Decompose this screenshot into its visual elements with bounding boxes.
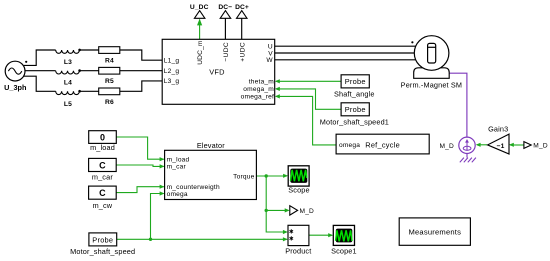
resistor R5 xyxy=(99,67,120,85)
subsystem Measurements xyxy=(399,218,470,245)
VFD block xyxy=(162,39,275,104)
svg-text:0: 0 xyxy=(100,133,105,143)
svg-text:U_DC: U_DC xyxy=(190,4,209,11)
constant block C (m_cw) xyxy=(89,186,117,210)
svg-text:Scope1: Scope1 xyxy=(331,246,357,255)
electrical tag DC- xyxy=(218,4,232,18)
wire phase row3 L5 to VFD L3_g xyxy=(79,81,162,91)
arrow into Scope1 xyxy=(328,233,333,237)
constant block C (m_car) xyxy=(89,158,117,181)
arrow into Product input 1 xyxy=(283,230,288,234)
wire junction to Elevator omega input xyxy=(151,194,164,240)
svg-text:m_car: m_car xyxy=(92,173,113,182)
wire m_cw const to Elevator xyxy=(116,187,164,193)
motor Perm.-Magnet SM xyxy=(401,36,462,90)
arrow into Gain3 xyxy=(509,143,514,147)
wire torque branch to M_D output tag xyxy=(266,209,288,211)
arrow into Elevator m_car xyxy=(160,164,165,168)
arrow into Elevator m_counterweigth xyxy=(160,185,165,189)
wire Product output to Scope1 xyxy=(309,234,332,236)
probe Shaft_angle xyxy=(334,75,375,99)
svg-text:omega_ref: omega_ref xyxy=(241,94,274,101)
svg-text:theta_m: theta_m xyxy=(249,79,275,86)
svg-text:Perm.-Magnet SM: Perm.-Magnet SM xyxy=(401,80,462,89)
scope Scope1 xyxy=(331,225,357,255)
wire Ref_cycle omega to VFD omega_ref xyxy=(276,96,336,144)
signal tag M_D output xyxy=(290,206,314,215)
arrow into Product input 2 xyxy=(283,237,288,241)
arrow into VFD omega_ref xyxy=(275,94,280,98)
svg-text:L3: L3 xyxy=(64,59,72,66)
svg-text:Elevator: Elevator xyxy=(197,141,225,150)
product block xyxy=(285,225,311,255)
gain Gain3 xyxy=(488,124,509,154)
arrow into VFD theta_m xyxy=(275,79,280,83)
svg-text:DC−: DC− xyxy=(218,4,232,11)
svg-text:U_3ph: U_3ph xyxy=(4,83,26,92)
arrow into Elevator m_load xyxy=(160,157,165,161)
svg-text:Measurements: Measurements xyxy=(408,227,461,236)
svg-text:m_load: m_load xyxy=(90,143,115,152)
inductor L3 xyxy=(56,49,81,66)
junction probe speed / omega branch xyxy=(149,238,152,241)
arrow into Scope xyxy=(283,174,288,178)
svg-text:m_car: m_car xyxy=(167,164,187,171)
svg-text:Gain3: Gain3 xyxy=(488,124,508,133)
ac source U_3ph xyxy=(4,61,27,92)
svg-text:Motor_shaft_speed: Motor_shaft_speed xyxy=(70,247,135,256)
svg-text:L4: L4 xyxy=(64,80,72,87)
svg-text:−1: −1 xyxy=(497,143,505,150)
svg-text:L2_g: L2_g xyxy=(164,68,180,75)
wire Gain3 to torque source xyxy=(477,144,487,146)
svg-text:Motor_shaft_speed1: Motor_shaft_speed1 xyxy=(320,118,389,127)
scope Scope xyxy=(288,166,310,195)
svg-text:−UDC: −UDC xyxy=(223,42,230,62)
svg-text:m_load: m_load xyxy=(167,157,190,164)
inductor L4 xyxy=(56,69,81,86)
wire DC+ tag to VFD xyxy=(241,18,243,39)
svg-text:M_D: M_D xyxy=(300,208,315,215)
resistor R6 xyxy=(99,88,120,106)
probe Motor_shaft_speed1 xyxy=(320,103,389,127)
arrow into torque source M_D xyxy=(476,143,481,147)
svg-text:Ref_cycle: Ref_cycle xyxy=(365,141,400,150)
svg-text:L3_g: L3_g xyxy=(164,78,180,85)
svg-text:Scope: Scope xyxy=(288,186,309,195)
svg-text:Product: Product xyxy=(285,247,311,256)
svg-text:M_D: M_D xyxy=(533,143,548,150)
svg-text:Shaft_angle: Shaft_angle xyxy=(334,90,375,99)
electrical tag DC+ xyxy=(235,4,249,18)
subsystem Ref_cycle xyxy=(336,134,429,154)
svg-text:Probe: Probe xyxy=(345,77,366,86)
svg-text:L5: L5 xyxy=(64,101,72,108)
svg-text:VFD: VFD xyxy=(209,67,225,76)
wire Probe Shaft_angle to VFD theta_m xyxy=(276,80,341,82)
arrow into M_D output tag xyxy=(285,208,290,212)
ground (rotational reference) xyxy=(460,154,476,163)
wire DC- tag to VFD xyxy=(224,18,226,39)
torque source M_D xyxy=(439,137,475,153)
svg-text:omega_m: omega_m xyxy=(243,86,274,93)
svg-text:L1_g: L1_g xyxy=(164,57,180,64)
svg-text:Probe: Probe xyxy=(92,235,113,244)
arrow into VFD omega_m xyxy=(275,87,280,91)
wire m_car const to Elevator xyxy=(116,165,164,166)
inductor L5 xyxy=(56,90,81,108)
wire Probe Motor_shaft_speed1 to VFD omega_m xyxy=(276,89,341,109)
subsystem Elevator xyxy=(165,141,257,200)
svg-text:+UDC: +UDC xyxy=(239,42,246,62)
wire phase row1 L3 to VFD L1_g xyxy=(79,50,162,60)
svg-text:R4: R4 xyxy=(105,58,114,65)
junction torque-M_D branch xyxy=(265,209,268,212)
constant block 0 (m_load) xyxy=(89,131,117,152)
svg-text:C: C xyxy=(99,160,106,170)
wire phase row2 L4 to VFD L2_g xyxy=(79,70,162,72)
wire VFD W to motor xyxy=(275,59,416,61)
wire VFD U to motor xyxy=(275,45,416,47)
wire UDC_m to U_DC tag xyxy=(199,20,201,40)
svg-text:DC+: DC+ xyxy=(235,4,249,11)
wire torque branch down to M_D tag and Product xyxy=(266,176,287,232)
svg-text:omega: omega xyxy=(339,142,360,149)
electrical tag U_DC xyxy=(190,4,209,18)
svg-text:W: W xyxy=(266,57,273,64)
wire Elevator Torque output to Scope xyxy=(256,175,287,177)
svg-text:m_cw: m_cw xyxy=(93,201,113,210)
arrow into Elevator omega xyxy=(160,191,165,195)
signal tag M_D input xyxy=(524,142,548,150)
svg-text:Probe: Probe xyxy=(345,105,366,114)
junction torque-scope branch xyxy=(265,174,268,177)
wire phase row3 source to L5 xyxy=(24,76,56,91)
arrow into U_DC tag (up) xyxy=(197,19,202,26)
svg-text:R6: R6 xyxy=(105,99,114,106)
svg-text:C: C xyxy=(99,188,106,198)
wire motor shaft to torque source M_D xyxy=(449,73,467,137)
wire phase row1 source to L3 xyxy=(24,50,56,65)
resistor R4 xyxy=(99,47,120,65)
svg-text:omega: omega xyxy=(167,191,188,198)
probe Motor_shaft_speed xyxy=(70,233,135,256)
wire phase row2 source to L4 xyxy=(25,70,56,72)
wire Probe Motor_shaft_speed to Product and omega branch xyxy=(116,238,287,240)
wire M_D tag to Gain3 xyxy=(510,144,524,146)
svg-text:R5: R5 xyxy=(105,78,114,85)
svg-text:UDC_m: UDC_m xyxy=(197,40,204,65)
wire m_load const to Elevator xyxy=(116,137,164,159)
svg-text:Torque: Torque xyxy=(233,173,254,180)
wire VFD V to motor xyxy=(275,52,416,54)
svg-text:M_D: M_D xyxy=(439,143,454,150)
